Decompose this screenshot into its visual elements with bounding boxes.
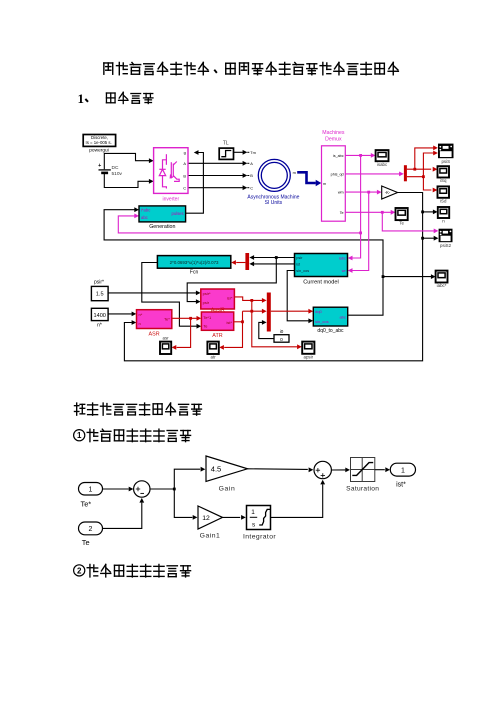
wire Integrator to sum2 xyxy=(271,480,326,518)
wire TL to Tm xyxy=(234,150,248,155)
wire ist* ATR to mux and atr scope xyxy=(219,309,266,350)
svg-text:-K-: -K- xyxy=(385,190,391,195)
wire ist from Current model to Fcn mux xyxy=(249,262,294,267)
svg-text:Te: Te xyxy=(82,538,90,547)
wire i0 to mux xyxy=(259,320,274,339)
svg-text:n: n xyxy=(139,321,141,326)
Saturation block xyxy=(346,458,379,493)
svg-text:ASR: ASR xyxy=(149,331,160,337)
XY scope psiS2 xyxy=(439,229,453,248)
constant i0 xyxy=(274,329,289,343)
svg-text:12: 12 xyxy=(202,515,210,522)
Current model block xyxy=(295,254,348,286)
DC voltage source xyxy=(98,163,122,177)
asynchronous machine block xyxy=(247,150,299,206)
scope n xyxy=(438,207,449,224)
inport 1 Te* xyxy=(79,483,103,509)
svg-text:Te*1: Te*1 xyxy=(203,315,212,320)
svg-text:iSd: iSd xyxy=(440,198,447,203)
wire Gain to sum2 xyxy=(248,467,314,472)
svg-text:ist*: ist* xyxy=(226,320,232,325)
svg-text:abc: abc xyxy=(339,314,345,319)
gain -K- xyxy=(382,186,398,199)
svg-text:Fcn: Fcn xyxy=(190,270,199,276)
heading circled-1 torque regulator model xyxy=(74,429,191,442)
wire isr* ApsiR to mux and apsir scope xyxy=(234,297,301,349)
svg-text:Generation: Generation xyxy=(149,224,175,230)
svg-text:ATR: ATR xyxy=(212,333,222,339)
constant n* 1400 xyxy=(91,308,108,328)
scope apsir xyxy=(302,342,314,360)
svg-text:2: 2 xyxy=(77,566,82,575)
svg-text:pulses: pulses xyxy=(171,211,183,216)
wire psir from Current model to Fcn and ApsiR xyxy=(187,255,294,304)
wire phis_d demux1 to psiS and iSd xyxy=(407,151,438,193)
wire sum1 to gains xyxy=(150,467,205,520)
svg-text:+: + xyxy=(98,163,101,169)
wire inport2 to sum1 xyxy=(103,498,145,529)
sum1 block xyxy=(134,481,150,497)
svg-text:TL: TL xyxy=(223,141,229,147)
ApsiR block xyxy=(201,289,235,314)
wire pulses to inverter g xyxy=(186,150,204,213)
wire phis_q demux1 to iSq and psiS xyxy=(407,146,438,172)
svg-text:B: B xyxy=(250,173,253,178)
svg-text:dq0: dq0 xyxy=(315,309,322,314)
gain 4.5 Gain xyxy=(206,456,248,493)
svg-text:A: A xyxy=(250,161,253,166)
svg-text:Is = 1e-005 s.: Is = 1e-005 s. xyxy=(86,140,112,145)
mux2 red bar xyxy=(267,293,271,332)
wire psir* constant to ApsiR xyxy=(108,291,201,296)
wire Fcn mux to Fcn xyxy=(231,260,245,265)
gain 12 Gain1 xyxy=(198,506,223,539)
svg-text:psiS: psiS xyxy=(441,159,450,164)
svg-text:0: 0 xyxy=(280,337,283,343)
scope iSd xyxy=(438,186,450,203)
svg-text:apsir: apsir xyxy=(304,354,314,359)
wire iabc* feedback dq0_to_abc to Generation xyxy=(104,207,436,315)
svg-text:atr: atr xyxy=(211,355,217,360)
svg-text:n*: n* xyxy=(139,312,143,317)
wire Saturation to outport xyxy=(375,467,390,472)
powergui block xyxy=(83,135,115,154)
svg-text:Saturation: Saturation xyxy=(346,486,379,493)
svg-text:n*: n* xyxy=(97,322,102,328)
ATR block xyxy=(201,312,233,339)
svg-text:1: 1 xyxy=(401,467,405,474)
svg-text:i0: i0 xyxy=(280,329,284,334)
svg-text:Te*: Te* xyxy=(164,317,170,322)
svg-text:Gain: Gain xyxy=(219,486,236,493)
svg-text:B: B xyxy=(183,173,186,178)
svg-text:psir*: psir* xyxy=(203,291,211,296)
svg-text:psiS2: psiS2 xyxy=(440,243,452,248)
heading submodules xyxy=(74,403,201,415)
svg-text:iSq: iSq xyxy=(440,178,447,183)
svg-text:Te: Te xyxy=(399,221,404,226)
svg-text:ApsiR: ApsiR xyxy=(211,308,225,314)
svg-text:DC: DC xyxy=(112,165,119,171)
svg-text:m: m xyxy=(293,170,296,175)
svg-text:ist*: ist* xyxy=(396,482,406,489)
Generation block xyxy=(139,206,186,230)
svg-text:psir: psir xyxy=(203,300,210,305)
svg-text:psir: psir xyxy=(296,256,303,260)
svg-text:is_abc: is_abc xyxy=(333,154,344,158)
svg-text:sin_cos: sin_cos xyxy=(296,269,309,273)
svg-text:1: 1 xyxy=(78,91,85,106)
svg-text:Demux: Demux xyxy=(325,137,342,143)
wire speed n feedback -K- to ASR xyxy=(124,193,438,361)
svg-text:4.5: 4.5 xyxy=(211,465,222,474)
wire Te to scope and psiS2 xyxy=(345,210,438,233)
wire is_abc from Machines Demux xyxy=(118,153,375,260)
scope isabc xyxy=(376,150,389,167)
svg-text:powergui: powergui xyxy=(89,147,108,153)
svg-text:1: 1 xyxy=(77,431,82,440)
inport 2 Te xyxy=(79,522,103,547)
svg-text:isr*: isr* xyxy=(227,296,233,301)
scope atr xyxy=(207,342,218,360)
Fcn input mux red bar xyxy=(245,253,249,270)
wire mux to dq0_to_abc xyxy=(271,309,313,314)
bus machine m to Machines Demux xyxy=(297,172,321,186)
svg-text:wm: wm xyxy=(338,191,344,195)
scope iSq xyxy=(438,166,450,183)
svg-text:C: C xyxy=(250,185,253,190)
svg-text:510v: 510v xyxy=(112,171,123,177)
svg-text:Current model: Current model xyxy=(303,280,338,286)
TL step block xyxy=(219,141,233,160)
svg-text:Te*: Te* xyxy=(81,500,92,509)
svg-text:sin_cos: sin_cos xyxy=(315,319,329,324)
svg-text:Tm: Tm xyxy=(250,150,256,155)
wire n* constant to ASR xyxy=(108,312,136,317)
svg-text:1: 1 xyxy=(89,486,93,493)
Fcn block xyxy=(157,256,230,276)
svg-text:Te: Te xyxy=(340,211,344,215)
scope asr xyxy=(160,335,171,354)
svg-text:asr: asr xyxy=(163,335,170,340)
svg-text:Integrator: Integrator xyxy=(243,533,276,540)
sum2 block xyxy=(314,461,331,478)
svg-text:iabc*: iabc* xyxy=(437,283,447,288)
svg-text:2*0.0693*u(1)*u(2)/0.073: 2*0.0693*u(1)*u(2)/0.073 xyxy=(170,260,219,265)
document title (Chinese) xyxy=(104,62,399,74)
demux1 red bar xyxy=(404,165,407,181)
scope iabc* xyxy=(436,271,448,289)
svg-text:Gain1: Gain1 xyxy=(200,532,221,539)
wire DC- to inverter xyxy=(104,173,153,187)
svg-text:A: A xyxy=(183,161,186,166)
wire inport1 to sum1 xyxy=(103,487,134,492)
wire phase B inverter to machine xyxy=(188,173,247,178)
inverter block xyxy=(154,148,188,203)
heading circled-2 speed regulator model xyxy=(74,564,191,577)
wire Te estimate Fcn to ATR xyxy=(142,263,201,329)
svg-text:abc: abc xyxy=(141,215,148,220)
wire DC+ to inverter xyxy=(104,153,153,169)
wire phase C inverter to machine xyxy=(188,185,247,190)
wire phase A inverter to machine xyxy=(188,161,247,166)
constant psir* 1.5 xyxy=(91,279,108,300)
svg-text:i*abc: i*abc xyxy=(141,208,150,213)
svg-text:SI Units: SI Units xyxy=(265,200,283,206)
svg-text:iabc: iabc xyxy=(339,257,346,261)
scope Te xyxy=(396,208,408,226)
dq0_to_abc block xyxy=(313,307,347,334)
outport 1 ist* xyxy=(390,463,415,488)
svg-text:isabc: isabc xyxy=(377,162,388,167)
wire sum2 to Saturation xyxy=(331,468,350,473)
svg-text:g: g xyxy=(184,150,186,155)
wire phis_qd to demux1 xyxy=(345,172,404,177)
svg-text:s: s xyxy=(252,522,255,529)
svg-text:1400: 1400 xyxy=(93,313,105,319)
Machines Demux block xyxy=(322,130,346,221)
svg-text:n: n xyxy=(442,219,445,224)
svg-text:phis_qd: phis_qd xyxy=(331,173,344,177)
svg-text:dq0_to_abc: dq0_to_abc xyxy=(317,328,344,334)
heading 1. simulation model xyxy=(78,91,153,106)
svg-text:1: 1 xyxy=(251,509,255,516)
XY scope psiS xyxy=(438,144,454,164)
svg-text:C: C xyxy=(183,186,186,191)
wire wm to -K- and Current model xyxy=(345,190,381,273)
svg-text:2: 2 xyxy=(89,526,93,533)
Integrator block xyxy=(243,506,276,541)
svg-text:psir*: psir* xyxy=(94,279,104,285)
wire Te* ASR to ATR and asr scope xyxy=(172,316,202,350)
svg-text:1.5: 1.5 xyxy=(96,292,104,298)
wire Gain1 to Integrator xyxy=(223,515,246,520)
svg-text:Machines: Machines xyxy=(322,130,345,136)
svg-text:m: m xyxy=(323,182,326,186)
svg-text:inverter: inverter xyxy=(162,196,179,202)
ASR block xyxy=(137,310,172,338)
wire sin_cos to dq0_to_abc xyxy=(287,271,313,324)
